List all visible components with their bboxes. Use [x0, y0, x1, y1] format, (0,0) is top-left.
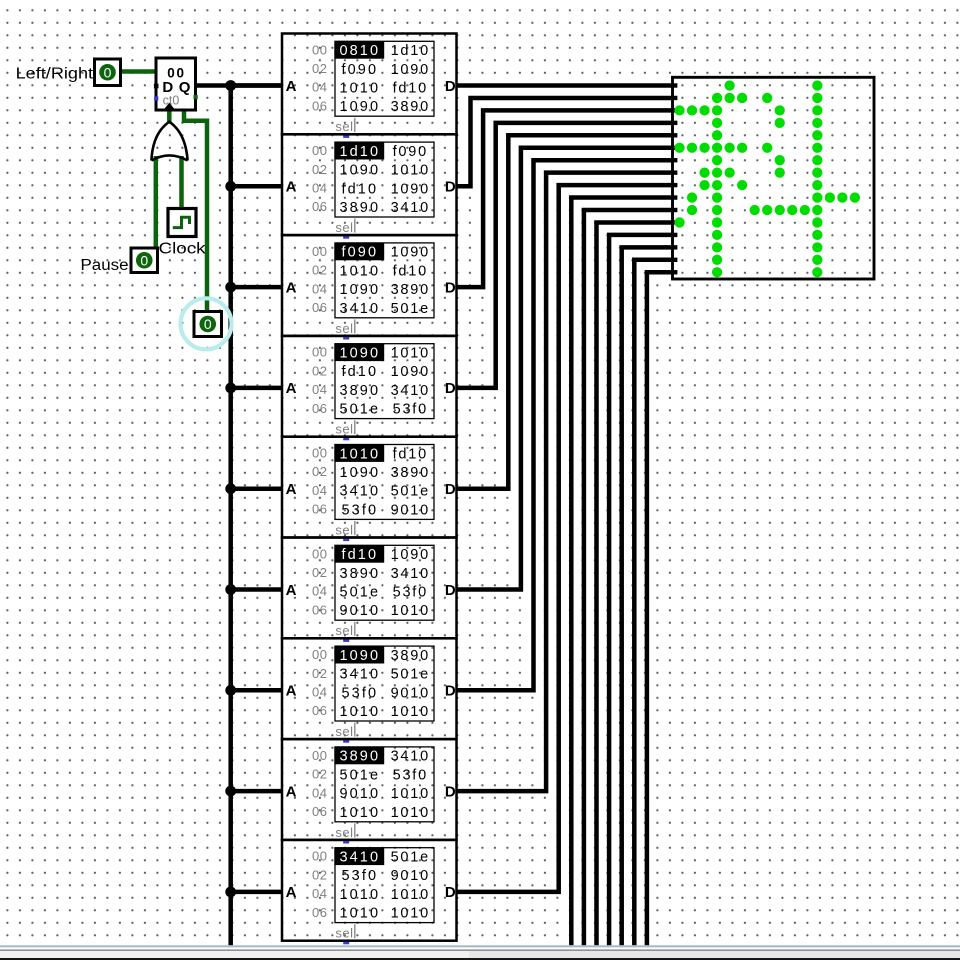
svg-text:D: D	[445, 683, 456, 700]
svg-text:D: D	[445, 380, 456, 397]
svg-text:3410: 3410	[391, 200, 430, 216]
svg-text:1010: 1010	[391, 163, 430, 179]
svg-text:A: A	[286, 884, 297, 901]
svg-text:Left/Right: Left/Right	[16, 66, 94, 83]
svg-text:1090: 1090	[391, 245, 430, 261]
svg-text:3410: 3410	[339, 667, 380, 683]
svg-text:fd10: fd10	[393, 263, 428, 279]
svg-text:1010: 1010	[339, 906, 380, 922]
svg-text:3890: 3890	[339, 749, 380, 765]
svg-text:00: 00	[312, 42, 327, 57]
svg-text:D: D	[445, 884, 456, 901]
svg-text:1010: 1010	[391, 887, 430, 903]
svg-text:00: 00	[312, 849, 327, 864]
svg-text:0810: 0810	[339, 43, 380, 59]
svg-text:A: A	[286, 279, 297, 296]
svg-text:0: 0	[204, 316, 212, 332]
svg-text:1090: 1090	[339, 648, 380, 664]
svg-text:06: 06	[312, 199, 327, 214]
svg-text:sel: sel	[335, 119, 353, 134]
svg-text:1010: 1010	[339, 887, 380, 903]
svg-text:04: 04	[312, 886, 327, 901]
svg-text:sel: sel	[335, 220, 353, 235]
svg-text:3410: 3410	[391, 566, 430, 582]
svg-text:53f0: 53f0	[393, 767, 428, 783]
svg-text:3890: 3890	[339, 200, 380, 216]
svg-text:0: 0	[104, 64, 112, 80]
svg-text:00: 00	[312, 446, 327, 461]
svg-text:02: 02	[312, 666, 327, 681]
svg-text:D: D	[445, 582, 456, 599]
svg-text:9010: 9010	[391, 868, 430, 884]
svg-text:04: 04	[312, 181, 327, 196]
svg-text:06: 06	[312, 703, 327, 718]
svg-text:D: D	[445, 78, 456, 95]
svg-text:fd10: fd10	[341, 181, 378, 197]
svg-text:1010: 1010	[339, 446, 380, 462]
svg-text:02: 02	[312, 162, 327, 177]
svg-text:A: A	[286, 481, 297, 498]
svg-text:D: D	[445, 179, 456, 196]
svg-text:02: 02	[312, 61, 327, 76]
svg-text:fd10: fd10	[341, 364, 378, 380]
svg-text:fd10: fd10	[393, 81, 428, 97]
svg-text:02: 02	[312, 464, 327, 479]
svg-text:3410: 3410	[391, 749, 430, 765]
svg-text:06: 06	[312, 401, 327, 416]
svg-text:1090: 1090	[391, 547, 430, 563]
svg-text:1010: 1010	[391, 603, 430, 619]
svg-text:1010: 1010	[391, 805, 430, 821]
svg-text:f090: f090	[393, 144, 428, 160]
svg-text:501e: 501e	[391, 301, 430, 317]
svg-text:1090: 1090	[391, 364, 430, 380]
svg-text:9010: 9010	[339, 603, 380, 619]
svg-text:02: 02	[312, 867, 327, 882]
svg-text:00: 00	[312, 748, 327, 763]
svg-text:Clock: Clock	[159, 241, 206, 258]
svg-text:3410: 3410	[339, 484, 380, 500]
svg-text:3410: 3410	[339, 850, 380, 866]
svg-text:501e: 501e	[391, 667, 430, 683]
svg-text:53f0: 53f0	[341, 685, 378, 701]
svg-text:Pause: Pause	[81, 257, 129, 274]
svg-text:sel: sel	[335, 724, 353, 739]
svg-text:06: 06	[312, 300, 327, 315]
svg-text:1090: 1090	[339, 163, 380, 179]
svg-text:04: 04	[312, 785, 327, 800]
svg-text:fd10: fd10	[341, 547, 378, 563]
svg-text:00: 00	[312, 244, 327, 259]
svg-text:00: 00	[312, 546, 327, 561]
svg-text:1010: 1010	[339, 805, 380, 821]
svg-text:02: 02	[312, 263, 327, 278]
svg-text:04: 04	[312, 685, 327, 700]
svg-text:9010: 9010	[391, 685, 430, 701]
svg-text:04: 04	[312, 281, 327, 296]
svg-text:A: A	[286, 683, 297, 700]
svg-text:D: D	[445, 783, 456, 800]
svg-text:53f0: 53f0	[393, 402, 428, 418]
svg-text:06: 06	[312, 602, 327, 617]
svg-text:sel: sel	[335, 926, 353, 941]
svg-text:1090: 1090	[339, 99, 380, 115]
svg-text:3890: 3890	[391, 648, 430, 664]
svg-text:1010: 1010	[391, 906, 430, 922]
svg-text:501e: 501e	[339, 402, 380, 418]
svg-text:1d10: 1d10	[339, 144, 380, 160]
svg-text:06: 06	[312, 98, 327, 113]
svg-text:1010: 1010	[391, 786, 430, 802]
svg-text:sel: sel	[335, 522, 353, 537]
svg-text:04: 04	[312, 382, 327, 397]
svg-text:A: A	[286, 380, 297, 397]
svg-text:1010: 1010	[339, 704, 380, 720]
svg-text:00: 00	[312, 143, 327, 158]
svg-text:3890: 3890	[339, 383, 380, 399]
svg-text:0: 0	[140, 252, 148, 268]
svg-text:D: D	[445, 279, 456, 296]
svg-text:02: 02	[312, 363, 327, 378]
svg-text:02: 02	[312, 767, 327, 782]
svg-text:1090: 1090	[391, 62, 430, 78]
svg-text:1010: 1010	[339, 81, 380, 97]
svg-text:1010: 1010	[391, 704, 430, 720]
svg-text:501e: 501e	[339, 767, 380, 783]
svg-text:501e: 501e	[391, 484, 430, 500]
svg-text:fd10: fd10	[393, 446, 428, 462]
svg-text:04: 04	[312, 584, 327, 599]
svg-text:9010: 9010	[391, 502, 430, 518]
svg-text:53f0: 53f0	[341, 868, 378, 884]
svg-text:501e: 501e	[339, 585, 380, 601]
svg-text:53f0: 53f0	[341, 502, 378, 518]
svg-text:3890: 3890	[391, 282, 430, 298]
svg-text:04: 04	[312, 483, 327, 498]
svg-text:A: A	[286, 179, 297, 196]
svg-text:04: 04	[312, 80, 327, 95]
svg-text:501e: 501e	[391, 850, 430, 866]
svg-text:D: D	[445, 481, 456, 498]
svg-text:53f0: 53f0	[393, 585, 428, 601]
svg-text:06: 06	[312, 804, 327, 819]
svg-text:1010: 1010	[391, 346, 430, 362]
svg-text:f090: f090	[341, 62, 378, 78]
svg-text:02: 02	[312, 565, 327, 580]
svg-text:3890: 3890	[339, 566, 380, 582]
svg-text:f090: f090	[341, 245, 378, 261]
svg-text:sel: sel	[335, 321, 353, 336]
svg-text:Q: Q	[179, 79, 191, 96]
svg-text:3890: 3890	[391, 99, 430, 115]
svg-text:sel: sel	[335, 623, 353, 638]
svg-text:00: 00	[312, 647, 327, 662]
svg-text:1010: 1010	[339, 263, 380, 279]
svg-text:1090: 1090	[339, 465, 380, 481]
svg-text:1090: 1090	[391, 181, 430, 197]
svg-text:3890: 3890	[391, 465, 430, 481]
svg-text:A: A	[286, 783, 297, 800]
svg-text:3410: 3410	[391, 383, 430, 399]
svg-text:A: A	[286, 582, 297, 599]
svg-text:1090: 1090	[339, 282, 380, 298]
svg-text:1090: 1090	[339, 346, 380, 362]
svg-text:1d10: 1d10	[391, 43, 430, 59]
svg-text:3410: 3410	[339, 301, 380, 317]
svg-text:A: A	[286, 78, 297, 95]
svg-text:06: 06	[312, 905, 327, 920]
svg-text:sel: sel	[335, 825, 353, 840]
svg-text:00: 00	[312, 345, 327, 360]
svg-text:9010: 9010	[339, 786, 380, 802]
svg-text:sel: sel	[335, 422, 353, 437]
svg-text:06: 06	[312, 502, 327, 517]
